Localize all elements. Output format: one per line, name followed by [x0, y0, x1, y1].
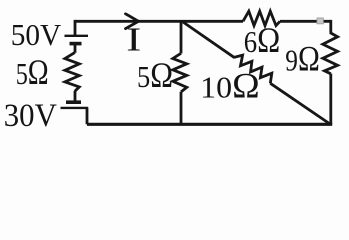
- wire node B stub down to middle 5Ω: [180, 21, 183, 53]
- svg-text:6Ω: 6Ω: [244, 20, 280, 60]
- circuit schematic: two-voltage-source resistive network: [0, 0, 349, 136]
- wire top-right corner stub down to 9Ω: [329, 20, 332, 33]
- svg-text:I: I: [126, 21, 141, 58]
- resistor 6Ω on top wire: [243, 11, 280, 25]
- wire diagonal upper segment (node B to 10Ω): [183, 22, 235, 58]
- current arrow I on top wire: [126, 14, 139, 29]
- resistor 5Ω left branch: [65, 53, 79, 92]
- svg-text:5Ω: 5Ω: [137, 55, 173, 95]
- wire between 50V battery and 5Ω resistor: [74, 44, 77, 53]
- wire top-right segment (6Ω to top-right corner): [280, 20, 331, 23]
- wire top-left segment (top-left corner to node B): [75, 20, 243, 23]
- gray handle square near top-right corner: [317, 18, 323, 24]
- wire middle 5Ω down to bottom rail: [180, 92, 183, 125]
- resistor 5Ω middle branch: [173, 53, 187, 92]
- svg-text:30V: 30V: [4, 98, 57, 134]
- svg-text:5Ω: 5Ω: [16, 52, 49, 92]
- wire between 5Ω resistor and 30V battery: [74, 91, 77, 101]
- battery 50V short plate: [70, 42, 82, 46]
- svg-text:50V: 50V: [11, 17, 62, 52]
- resistor 10Ω on diagonal branch: [234, 55, 272, 83]
- wire bottom-left corner segment (30V battery down to bottom wire): [86, 108, 89, 124]
- resistor 9Ω right branch: [323, 33, 338, 74]
- wire stub top-left corner down to 50V battery: [74, 20, 77, 35]
- svg-text:9Ω: 9Ω: [285, 38, 320, 78]
- svg-text:10Ω: 10Ω: [200, 65, 260, 105]
- battery 50V long plate: [65, 35, 89, 37]
- wire bottom rail: [87, 123, 332, 126]
- battery 30V long plate: [61, 107, 89, 109]
- wire 9Ω down to bottom-right corner: [329, 74, 332, 125]
- battery 30V short plate: [66, 100, 81, 104]
- wire diagonal lower segment (10Ω to bottom-right corner): [270, 83, 330, 124]
